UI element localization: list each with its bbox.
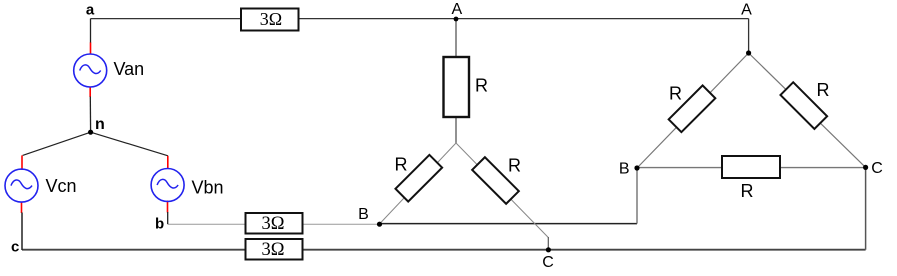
svg-text:c: c: [11, 239, 19, 256]
svg-text:Vbn: Vbn: [192, 178, 224, 198]
svg-text:3Ω: 3Ω: [262, 214, 285, 234]
svg-text:R: R: [817, 80, 830, 100]
svg-text:3Ω: 3Ω: [262, 240, 285, 260]
svg-text:B: B: [619, 161, 630, 178]
svg-text:Van: Van: [114, 59, 145, 79]
svg-text:R: R: [475, 76, 488, 96]
svg-text:B: B: [358, 206, 369, 223]
svg-text:R: R: [741, 181, 754, 201]
svg-text:A: A: [741, 2, 752, 19]
svg-text:C: C: [542, 254, 554, 271]
svg-text:a: a: [86, 2, 95, 19]
svg-text:R: R: [669, 84, 682, 104]
svg-text:R: R: [508, 156, 521, 176]
svg-text:Vcn: Vcn: [46, 176, 77, 196]
svg-text:3Ω: 3Ω: [260, 9, 282, 29]
svg-text:n: n: [95, 116, 105, 133]
svg-text:A: A: [451, 1, 462, 18]
svg-text:C: C: [871, 160, 883, 177]
svg-text:b: b: [155, 216, 164, 233]
svg-text:R: R: [395, 155, 408, 175]
